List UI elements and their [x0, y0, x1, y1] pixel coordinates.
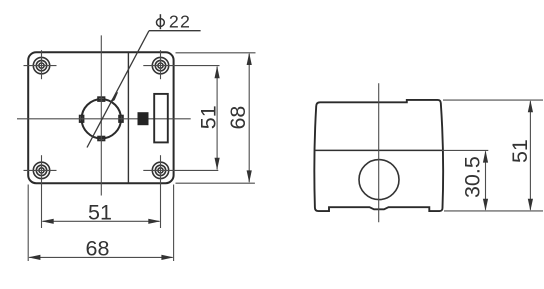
- svg-text:51: 51: [88, 200, 112, 224]
- svg-text:30.5: 30.5: [461, 156, 485, 198]
- svg-text:22: 22: [169, 11, 191, 31]
- svg-text:51: 51: [508, 139, 532, 163]
- svg-text:51: 51: [196, 105, 220, 129]
- svg-text:68: 68: [226, 106, 250, 130]
- svg-text:68: 68: [86, 237, 110, 261]
